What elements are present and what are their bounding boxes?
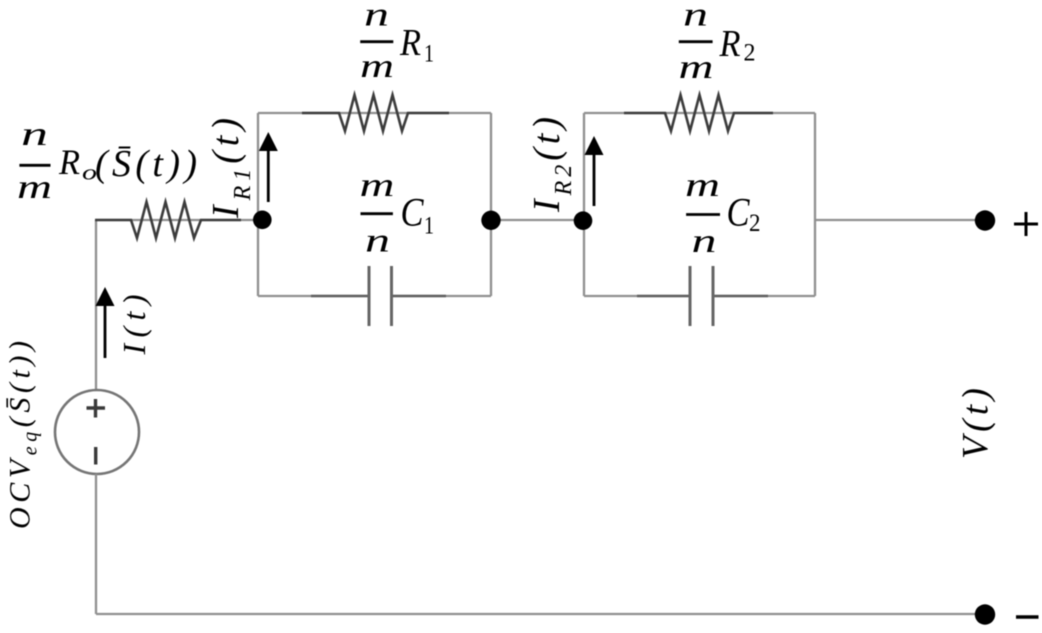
svg-text:C: C [727,190,751,235]
label m/n C2 [685,167,761,260]
label n/m R1 [360,0,434,85]
resistor Ro [95,202,241,238]
node A (junction Ro/box1) [253,211,272,230]
box 2 frame (RC pair 2) [584,113,815,296]
svg-text:2: 2 [749,210,761,237]
negative terminal node [975,604,995,624]
label I(t) [116,295,152,356]
svg-text:R: R [719,23,741,65]
label m/n C1 [360,167,435,260]
box 1 frame (RC pair 1) [258,113,491,296]
svg-text:V(t): V(t) [956,388,997,459]
svg-text:n: n [692,223,717,260]
svg-text:1: 1 [424,41,434,68]
svg-text:m: m [685,167,720,204]
svg-text:m: m [360,167,395,204]
svg-text:I(t): I(t) [116,295,152,356]
wire: top-left horizontal to node A [96,219,262,221]
svg-text:OCVeq(S̄(t)): OCVeq(S̄(t)) [4,341,42,529]
label V(t) [956,388,997,459]
svg-text:n: n [21,116,48,153]
resistor R2 [624,95,773,131]
label OCVeq(S(t)) [4,341,42,529]
current arrow IR2(t) [585,136,604,206]
svg-text:m: m [679,49,714,86]
label n/m R2 [679,0,756,86]
minus terminal sign [1016,615,1039,619]
wire: left vertical above source [95,220,97,390]
svg-text:n: n [364,0,389,34]
svg-text:C: C [401,190,425,235]
node B (junction box1 right) [481,211,500,230]
resistor R1 [302,95,449,131]
svg-text:2: 2 [744,40,756,67]
svg-text:m: m [17,169,52,206]
wire: box2 to positive terminal [815,219,985,221]
svg-text:IR1(t): IR1(t) [205,118,256,219]
svg-text:m: m [360,48,394,85]
capacitor C1 [311,266,446,326]
node C (junction box2 left) [574,211,593,230]
svg-text:1: 1 [424,213,434,240]
label n/m Ro(S(t)) [17,116,197,206]
svg-text:n: n [683,0,708,34]
svg-text:(S̄(t)): (S̄(t)) [95,143,197,185]
plus terminal sign [1014,212,1038,236]
label IR2(t) [526,117,577,213]
current arrow IR1(t) [259,132,278,202]
svg-text:R: R [399,22,421,64]
label IR1(t) [205,118,256,219]
svg-text:n: n [365,223,390,260]
current arrow I(t) [96,287,115,358]
wire: left vertical below source [95,474,97,614]
capacitor C2 [637,266,768,326]
svg-text:IR2(t): IR2(t) [526,117,577,213]
wire: bottom rail [96,613,985,615]
voltage source OCVeq [55,390,139,474]
svg-text:R: R [58,142,80,182]
positive terminal node [975,210,995,230]
wire: between box1 and box2 [491,219,584,221]
